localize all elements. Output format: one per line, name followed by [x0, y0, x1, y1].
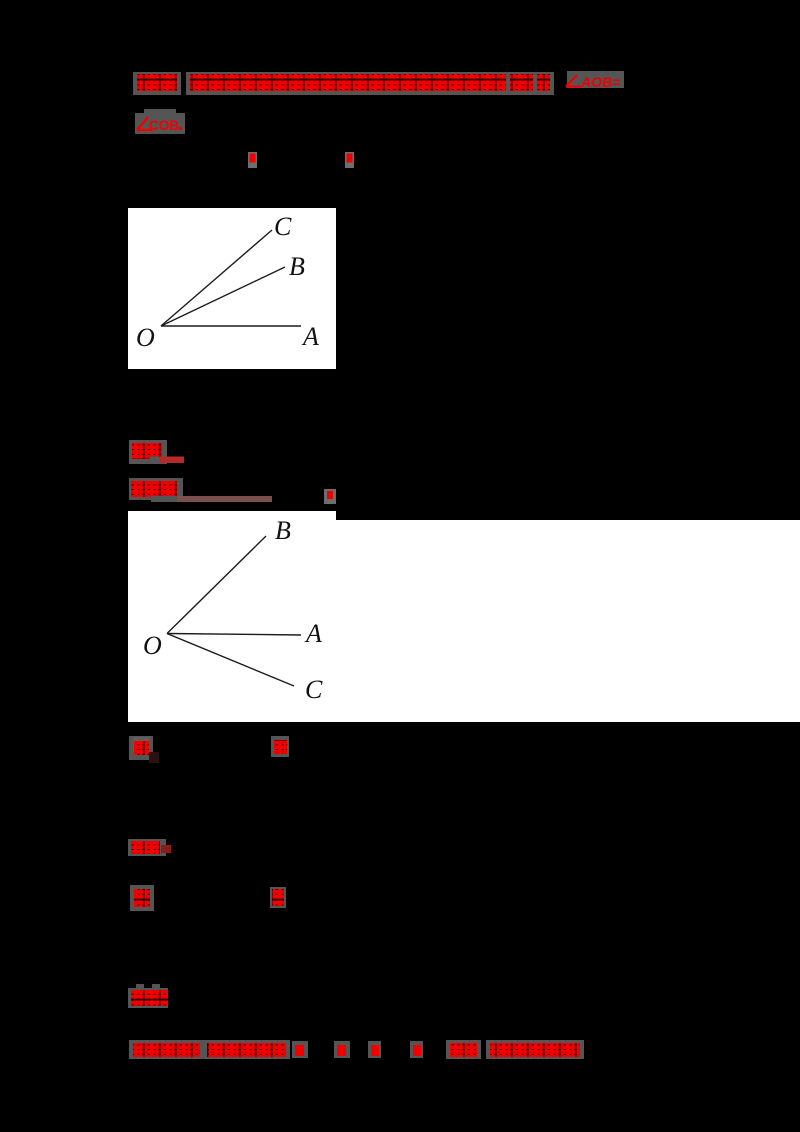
svg-text:C: C: [274, 212, 292, 241]
fig1 ray OB: [161, 267, 285, 326]
text row 10 seg1 band: [129, 1040, 203, 1059]
svg-text:B: B: [275, 516, 291, 545]
numbered item 4: [270, 887, 286, 908]
text row 5 mini formula: [324, 489, 336, 504]
text row 4 underline red part: [160, 457, 184, 464]
mini formula box a: [248, 152, 257, 168]
text row 10 item g4: [334, 1041, 350, 1058]
text row 9 fake glyphs: [131, 990, 168, 1006]
text row 1 gray band seg1: [133, 72, 181, 95]
figure box 2 left: [128, 511, 336, 722]
svg-text:B: B: [289, 252, 305, 281]
text row 10 seg1 fake glyphs: [133, 1043, 200, 1057]
text row 5 gray band: [129, 478, 183, 500]
mini formula box b: [345, 152, 354, 168]
text row 10 seg2 band: [203, 1040, 290, 1059]
svg-text:COB: COB: [149, 118, 179, 133]
text row 4 fake glyphs: [132, 443, 162, 459]
text row 10 item g3: [292, 1041, 308, 1058]
svg-text:A: A: [301, 322, 319, 351]
text row 1 angle symbol: [566, 75, 581, 87]
text row 1 fake glyphs seg1: [137, 74, 177, 91]
text row 10 item g6: [410, 1041, 423, 1058]
figure box 1: [128, 208, 336, 369]
text row 4 gray band: [129, 440, 167, 464]
fig2 ray OB: [167, 536, 266, 634]
svg-text:O: O: [143, 631, 162, 660]
numbered item 2: [271, 736, 289, 757]
text row 1 fake glyphs seg2: [190, 74, 506, 91]
numbered item 3: [130, 885, 154, 911]
fig2 ray OA: [167, 634, 301, 636]
text row 10 item g5: [368, 1041, 381, 1058]
fig2 ray OC: [167, 634, 294, 687]
text row 4 underline gray part: [150, 457, 160, 463]
svg-text:AOB=: AOB=: [580, 74, 620, 90]
text row 10 seg8 band: [486, 1040, 584, 1059]
svg-text:A: A: [304, 619, 322, 648]
text row 5 underline brown part: [177, 496, 272, 502]
text row 2 period: [179, 127, 183, 131]
text row 1 gray band seg3: [567, 71, 624, 88]
numbered item 1: [129, 736, 153, 760]
text row 10 seg2 fake glyphs: [207, 1043, 286, 1057]
text row 5 fake glyphs: [131, 481, 177, 497]
text row 5 underline gray part: [151, 496, 177, 502]
text row 7 dark mark: [161, 845, 171, 853]
text row 1 gray band seg2: [186, 72, 554, 95]
fig1 ray OC: [161, 230, 272, 326]
text row 10 seg7 band: [446, 1040, 481, 1059]
svg-text:C: C: [305, 675, 323, 704]
text row 2 angle symbol: [137, 117, 152, 130]
figure box 2 right: [336, 520, 800, 722]
text row 7 gray band: [128, 839, 166, 856]
text row 7 fake glyphs: [131, 841, 160, 854]
text row 9 gray band: [128, 988, 168, 1008]
svg-text:O: O: [136, 323, 155, 352]
text row 2 gray band: [135, 113, 185, 134]
fig1 ray OA: [161, 325, 301, 327]
